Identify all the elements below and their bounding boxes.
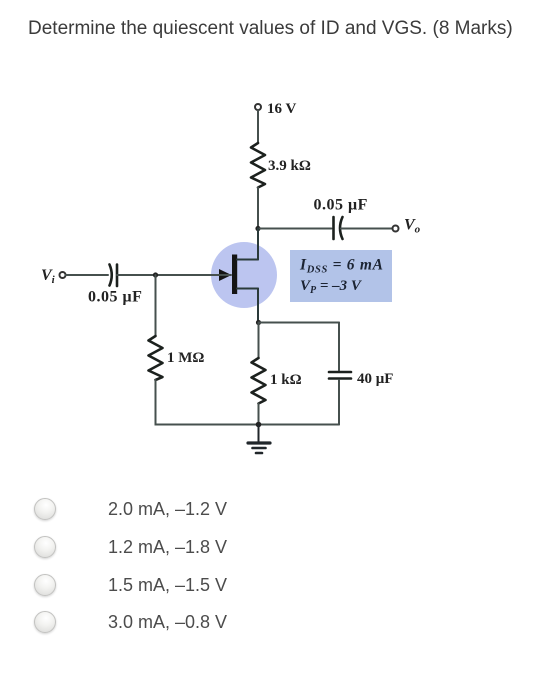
ground — [248, 425, 270, 454]
label Vo — [404, 217, 421, 236]
label Vi — [41, 267, 56, 286]
svg-text:40 μF: 40 μF — [357, 371, 393, 387]
resistor R1 3.9k — [251, 143, 265, 188]
wire — [258, 323, 260, 359]
wire — [66, 274, 109, 276]
wire — [117, 274, 231, 276]
wire — [338, 380, 340, 425]
capacitor C1 0.05uF input — [110, 265, 118, 287]
value label 16V — [267, 101, 296, 117]
transistor Q1 highlight circle — [211, 242, 277, 308]
svg-text:16 V: 16 V — [267, 101, 296, 117]
svg-text:Vi: Vi — [41, 267, 56, 286]
svg-text:1 kΩ: 1 kΩ — [270, 372, 302, 388]
value label 1 MOhm — [167, 350, 204, 366]
wire — [257, 188, 259, 229]
terminal Vi — [60, 272, 66, 278]
wire — [338, 323, 340, 371]
svg-text:0.05 μF: 0.05 μF — [88, 289, 142, 306]
node B gate node — [153, 272, 158, 277]
resistor R2 1M — [149, 336, 163, 380]
resistor R3 1k — [252, 358, 266, 404]
transistor Q1 JFET — [219, 229, 258, 323]
parameter box IDSS VP — [290, 250, 392, 302]
svg-text:0.05 μF: 0.05 μF — [314, 197, 368, 214]
terminal Vo — [393, 226, 399, 232]
svg-text:3.9 kΩ: 3.9 kΩ — [268, 158, 311, 174]
wire — [258, 228, 332, 230]
terminal 16V — [255, 104, 261, 110]
value label 0.05 uF input — [88, 289, 142, 306]
wire — [258, 404, 260, 425]
svg-text:Vo: Vo — [404, 217, 421, 236]
value label 0.05 uF output — [314, 197, 368, 214]
wire — [259, 322, 340, 324]
svg-text:VP = –3 V: VP = –3 V — [300, 278, 363, 296]
wire — [341, 228, 392, 230]
capacitor C2 0.05uF output — [334, 217, 343, 239]
capacitor C3 40uF — [329, 372, 351, 379]
value label 1 kOhm — [270, 372, 302, 388]
node A drain node — [255, 226, 260, 231]
wire — [156, 380, 340, 425]
svg-text:1 MΩ: 1 MΩ — [167, 350, 204, 366]
wire — [155, 275, 157, 336]
wire source to node — [256, 320, 261, 325]
wire — [257, 110, 259, 143]
node C bottom junction — [256, 422, 262, 428]
value label 40 uF — [357, 371, 393, 387]
value label 3.9 kOhm — [268, 158, 311, 174]
